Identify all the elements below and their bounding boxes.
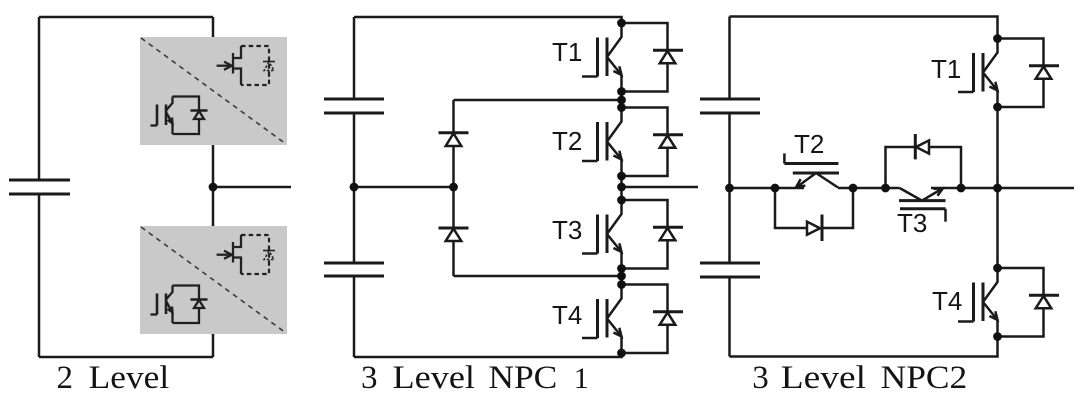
wire chain mid to T4 NPC2 [996, 188, 999, 268]
wire bottom rail NPC2 [730, 337, 998, 357]
node NPC2 T2 right [849, 184, 858, 193]
transistor T2 (NPC1) [582, 108, 683, 177]
svg-text:T4: T4 [932, 286, 962, 316]
wire chain T2-T3 NPC1 [620, 176, 623, 200]
diode D7 (antiparallel with T2) [775, 188, 853, 228]
node NPC2 rail mid [725, 184, 734, 193]
node NPC2 T4 top [993, 264, 1002, 273]
node NPC1 rail mid [350, 183, 359, 192]
node output 2-level [209, 183, 218, 192]
wire clamp branch vertical lower [452, 241, 455, 276]
wire output NPC1 [622, 186, 699, 189]
node NPC1 T2 top [617, 103, 626, 112]
wire clamp branch vertical middle [452, 146, 455, 228]
wire left rail lower NPC1 [353, 276, 356, 357]
svg-text:T2: T2 [552, 126, 582, 156]
wire left rail middle NPC2 [728, 113, 731, 263]
mosfet icon (dashed, lower box) [217, 235, 275, 274]
wire left rail upper NPC2 [728, 17, 731, 100]
node NPC2 T2 left [771, 184, 780, 193]
node NPC1 T1 top [617, 19, 626, 28]
node NPC1 clamp bottom [617, 272, 626, 281]
wire left rail upper 2-level [38, 17, 41, 180]
capacitor C4 (NPC2 lower DC link) [700, 263, 760, 277]
transistor T1 (NPC1) [582, 23, 683, 92]
node NPC2 T3 left [881, 184, 890, 193]
mosfet icon (dashed, upper box) [217, 46, 275, 85]
igbt icon (solid, lower box) [151, 286, 208, 324]
node NPC1 T4 top [617, 280, 626, 289]
diode D5 (upper clamp) [439, 131, 469, 134]
switch box S1 (IGBT/MOSFET choice, upper) [140, 37, 287, 145]
node NPC2 T3 right [957, 184, 966, 193]
node NPC2 T4 bottom [993, 332, 1002, 341]
node NPC1 T3 top [617, 196, 626, 205]
wire left rail middle NPC1 [353, 113, 356, 263]
wire chain T1 to mid NPC2 [996, 107, 999, 188]
wire bottom rail NPC1 [354, 353, 622, 357]
wire clamp bottom link [454, 275, 622, 278]
wire output 2-level [213, 186, 291, 189]
svg-text:T3: T3 [552, 215, 582, 245]
svg-text:3LevelNPC1: 3LevelNPC1 [361, 360, 589, 395]
wire middle output line NPC2 (T3 emitter to right edge) [931, 187, 1074, 190]
svg-text:3LevelNPC2: 3LevelNPC2 [752, 360, 967, 395]
wire top rail NPC1 [354, 17, 622, 23]
igbt icon (solid, upper box) [151, 97, 208, 135]
wire top rail 2-level [39, 16, 213, 19]
capacitor C (2-level DC link) [9, 180, 70, 194]
transistor T4 (NPC1) [582, 285, 683, 354]
wire top rail NPC2 [730, 17, 998, 39]
node NPC1 T1 bottom [617, 87, 626, 96]
node NPC2 chain mid [993, 184, 1002, 193]
node NPC1 output [617, 183, 626, 192]
transistor T3 (NPC1) [582, 200, 683, 269]
capacitor C1 (NPC1 upper DC link) [324, 99, 384, 113]
wire left rail lower NPC2 [728, 277, 731, 357]
svg-text:T2: T2 [794, 129, 824, 159]
transistor T2 (NPC2 horizontal IGBT) [783, 153, 786, 163]
wire bottom rail 2-level [39, 356, 213, 359]
node NPC1 clamp top [617, 96, 626, 105]
node NPC1 T4 bottom [617, 349, 626, 358]
wire middle output line NPC2 (T2 collector to T3 collector) [838, 187, 900, 190]
svg-text:T1: T1 [552, 37, 582, 67]
wire right leg 2-level [212, 17, 215, 357]
capacitor C3 (NPC2 upper DC link) [700, 99, 760, 113]
diode D8 (series with T3, top loop) [886, 147, 962, 188]
wire middle output line NPC2 (left piece to T2 emitter) [730, 187, 805, 190]
node NPC2 T1 bottom [993, 103, 1002, 112]
node NPC1 T3 bottom [617, 264, 626, 273]
wire left rail upper NPC1 [353, 17, 356, 99]
svg-text:T4: T4 [552, 300, 582, 330]
wire clamp top link [454, 99, 622, 102]
node NPC2 T1 top [993, 34, 1002, 43]
transistor T4 (NPC2) [958, 268, 1059, 337]
transistor T3 (NPC2 horizontal IGBT) [899, 199, 946, 202]
diode D6 (lower clamp) [439, 227, 469, 230]
wire midpoint to clamp NPC1 [354, 186, 454, 189]
node NPC1 clamp mid [449, 183, 458, 192]
node NPC1 T2 bottom [617, 172, 626, 181]
svg-text:T1: T1 [931, 54, 961, 84]
wire left rail lower 2-level [38, 194, 41, 357]
capacitor C2 (NPC1 lower DC link) [324, 263, 384, 276]
wire clamp branch vertical upper [452, 100, 455, 133]
switch box S2 (IGBT/MOSFET choice, lower) [140, 226, 287, 334]
wire chain T1-T2 NPC1 [620, 92, 623, 108]
wire chain T3-T4 NPC1 [620, 269, 623, 285]
transistor T1 (NPC2) [958, 39, 1059, 108]
svg-text:T3: T3 [897, 208, 927, 238]
